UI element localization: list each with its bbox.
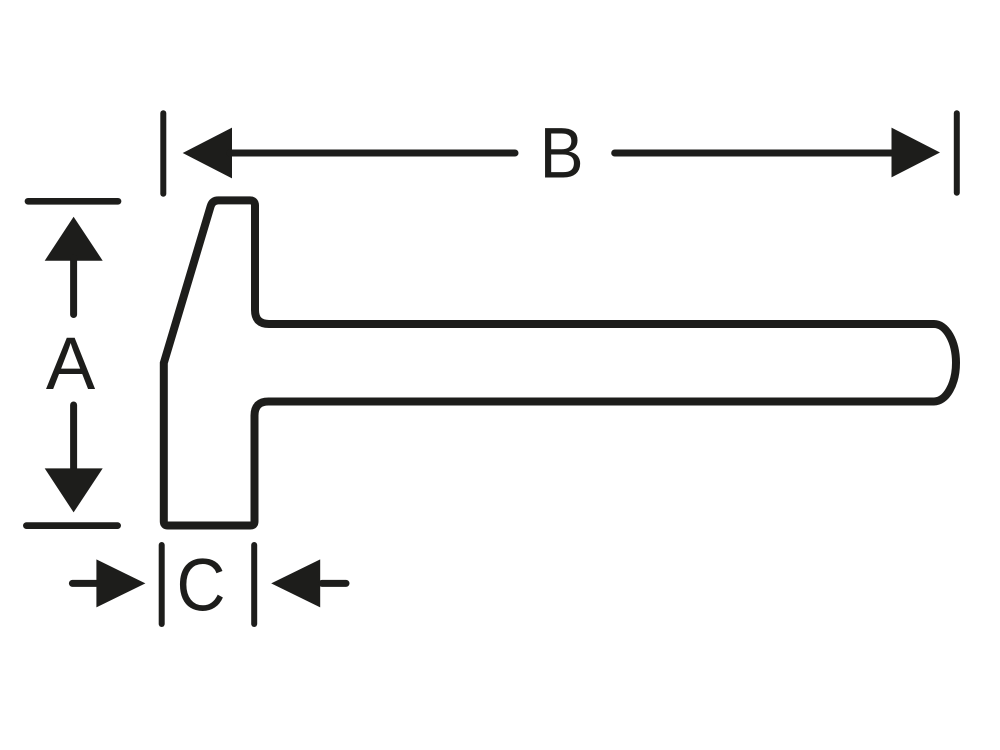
dimension C: left extension tick — [159, 545, 165, 624]
dimension C: left arrowhead (points right) — [96, 559, 145, 607]
dimension B: left shaft — [230, 150, 515, 157]
dimension A: up arrowhead — [45, 217, 103, 261]
svg-text:A: A — [46, 322, 96, 405]
dimension A: top extension tick — [28, 198, 118, 205]
dimension A: bottom extension tick — [26, 522, 117, 529]
dimension B: right arrowhead — [892, 128, 941, 178]
dimension C: left shaft — [72, 580, 98, 587]
dimension A: upper shaft — [70, 258, 77, 315]
dimension B: right extension tick — [954, 113, 960, 192]
dimension A: down arrowhead — [45, 468, 103, 512]
dimension B: left arrowhead — [183, 128, 232, 179]
dimension B: left extension tick — [160, 113, 166, 193]
dimension B: right shaft — [615, 150, 893, 157]
dimension C: right shaft — [322, 580, 346, 587]
svg-text:B: B — [540, 115, 584, 194]
dimension C: right arrowhead (points left) — [271, 559, 320, 607]
svg-text:C: C — [177, 544, 226, 627]
hammer outline — [164, 200, 956, 525]
dimension C: right extension tick — [251, 545, 257, 624]
dimension A: lower shaft — [70, 405, 77, 470]
